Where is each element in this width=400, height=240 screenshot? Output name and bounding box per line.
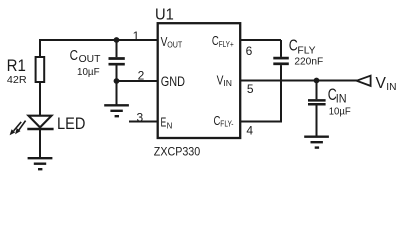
wire pin 2 [117, 80, 159, 82]
label U1 [155, 7, 174, 24]
svg-text:10µF: 10µF [77, 67, 100, 78]
pin number 4 [246, 124, 253, 138]
svg-text:5: 5 [247, 82, 254, 96]
ground below COUT [104, 105, 129, 116]
wire COUT junction to ground [116, 81, 118, 105]
pin label VIN [217, 72, 232, 88]
pin label EN [161, 115, 173, 131]
svg-text:6: 6 [246, 44, 253, 58]
junction node at CIN top [314, 78, 320, 84]
value 10uF [77, 67, 100, 78]
svg-text:U1: U1 [155, 7, 174, 24]
pin number 5 [247, 82, 254, 96]
svg-text:OUT: OUT [79, 54, 101, 65]
label R1 [7, 56, 26, 75]
svg-text:LED: LED [57, 114, 85, 133]
svg-text:C: C [289, 38, 298, 55]
junction node at COUT top [114, 37, 120, 43]
resistor R1 [36, 57, 45, 82]
svg-text:2: 2 [138, 69, 145, 83]
capacitor CFLY [273, 40, 289, 122]
pin label CFLY- [214, 113, 234, 129]
pin number 3 [137, 110, 144, 124]
wire pin 3 stub [129, 121, 158, 123]
value 220nF [294, 57, 323, 68]
label CFLY [289, 38, 316, 57]
port VIN triangle [357, 76, 371, 86]
junction node at pin 2 [114, 78, 120, 84]
label LED [57, 114, 85, 133]
svg-text:V: V [376, 75, 387, 92]
capacitor CIN [308, 81, 326, 137]
label CIN [328, 85, 347, 105]
svg-text:N: N [167, 121, 173, 131]
pin label CFLY+ [212, 33, 234, 49]
svg-text:IN: IN [336, 94, 347, 106]
svg-text:OUT: OUT [167, 39, 183, 49]
svg-text:FLY+: FLY+ [219, 39, 234, 49]
wire pin 4 to CFLY bottom [240, 121, 282, 123]
svg-text:3: 3 [137, 110, 144, 124]
svg-text:GND: GND [161, 74, 185, 89]
svg-text:10µF: 10µF [329, 106, 351, 117]
capacitor COUT [109, 40, 125, 81]
pin number 2 [138, 69, 145, 83]
svg-text:C: C [70, 47, 79, 64]
value 42R [7, 74, 27, 86]
svg-text:R1: R1 [7, 56, 26, 75]
pin number 6 [246, 44, 253, 58]
LED D1 [10, 116, 54, 136]
pin number 1 [133, 29, 140, 43]
svg-text:ZXCP330: ZXCP330 [154, 145, 201, 159]
svg-text:1: 1 [133, 29, 140, 43]
ground below LED [28, 158, 53, 169]
svg-text:IN: IN [386, 81, 396, 93]
value 10uF [329, 106, 351, 117]
IC U1 ZXCP330 [158, 23, 241, 138]
wire pin 6 to CFLY [240, 39, 281, 41]
svg-text:220nF: 220nF [294, 57, 323, 68]
svg-text:FLY-: FLY- [220, 119, 233, 129]
wire LED to ground [39, 129, 41, 158]
label VIN [376, 75, 397, 93]
svg-text:FLY: FLY [297, 45, 315, 56]
ground below CIN [304, 137, 329, 148]
wire pin 5 to VIN port [240, 80, 357, 82]
wire from R1 top to pin 1 [40, 40, 158, 58]
wire R1 to LED [39, 82, 41, 116]
label COUT [70, 47, 101, 65]
pin label VOUT [161, 34, 183, 50]
svg-text:IN: IN [223, 78, 232, 88]
label ZXCP330 [154, 145, 201, 159]
svg-text:4: 4 [246, 124, 253, 138]
svg-text:42R: 42R [7, 74, 27, 86]
pin label GND [161, 74, 185, 89]
